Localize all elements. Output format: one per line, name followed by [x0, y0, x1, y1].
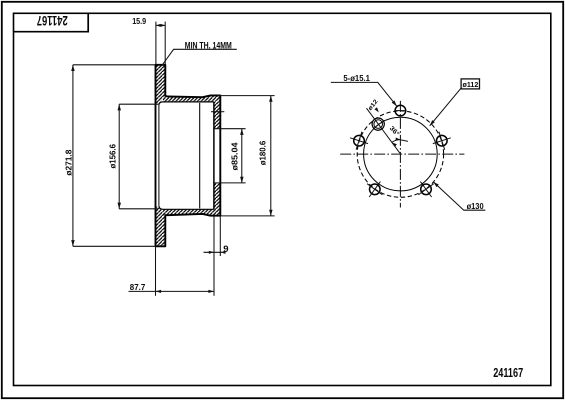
hub circle Ø112 (solid): [364, 117, 438, 191]
disc outer profile (bold): [156, 65, 221, 247]
svg-text:ø112: ø112: [463, 80, 479, 89]
title box: [14, 13, 89, 31]
mounting face inner edge: [213, 102, 215, 209]
bolt hole left (162deg): [350, 132, 368, 150]
hat flange hatch bottom strip: [163, 209, 220, 215]
boxed label Ø112 with leader: [461, 79, 479, 89]
svg-text:ø156.6: ø156.6: [109, 143, 118, 168]
hub wall hatch lower solid: [214, 183, 220, 209]
vertical centerline: [399, 101, 401, 208]
bolt hole top (90deg): [395, 105, 406, 116]
dimension Ø180.6: [218, 96, 274, 216]
bolt circle Ø130 (dashed): [357, 111, 443, 197]
svg-text:87.7: 87.7: [130, 283, 146, 292]
bolt hole bottom-left (234deg): [367, 182, 382, 197]
svg-text:241167: 241167: [37, 13, 68, 29]
threaded locating hole (126deg on hub circle): [372, 118, 384, 130]
hat flange hatch top strip: [163, 96, 220, 102]
angle dimension arc: [392, 140, 401, 143]
dimension 9 (mounting flange thickness): [204, 216, 223, 256]
dimension Ø156.6: [119, 104, 158, 209]
dimension Ø85.04: [213, 129, 246, 183]
hub pocket edge line: [199, 103, 201, 209]
svg-text:ø180.6: ø180.6: [258, 140, 267, 165]
svg-text:9: 9: [223, 244, 228, 255]
bolt hole right (18deg): [433, 132, 451, 150]
dimension Ø271.8: [73, 65, 155, 247]
bolt hole bottom-right (306deg): [418, 182, 433, 197]
radial centerline through threaded hole: [367, 108, 401, 153]
small tick across wall: [211, 111, 224, 113]
hub wall hatch upper solid: [214, 102, 220, 129]
disc section hatch bottom friction band: [156, 207, 166, 246]
svg-text:241167: 241167: [493, 366, 523, 380]
leader arrow on radial line: [374, 107, 378, 112]
disc section hatch top friction band: [156, 65, 166, 104]
leader MIN TH. 14MM: [162, 49, 237, 66]
hat inner surface bottom edge: [159, 206, 214, 210]
hat inner surface top edge: [159, 102, 214, 105]
disc bore edge line: [158, 105, 160, 206]
svg-text:ø85.04: ø85.04: [230, 142, 239, 171]
svg-text:15.9: 15.9: [132, 17, 146, 26]
svg-text:ø271.8: ø271.8: [65, 149, 74, 176]
svg-text:5-ø15.1: 5-ø15.1: [343, 74, 370, 83]
dimension 87.7 (mounting height): [129, 216, 215, 296]
dimension 15.9 disc thickness: [156, 22, 165, 65]
svg-text:MIN TH. 14MM: MIN TH. 14MM: [185, 40, 232, 50]
horizontal centerline: [340, 153, 464, 155]
